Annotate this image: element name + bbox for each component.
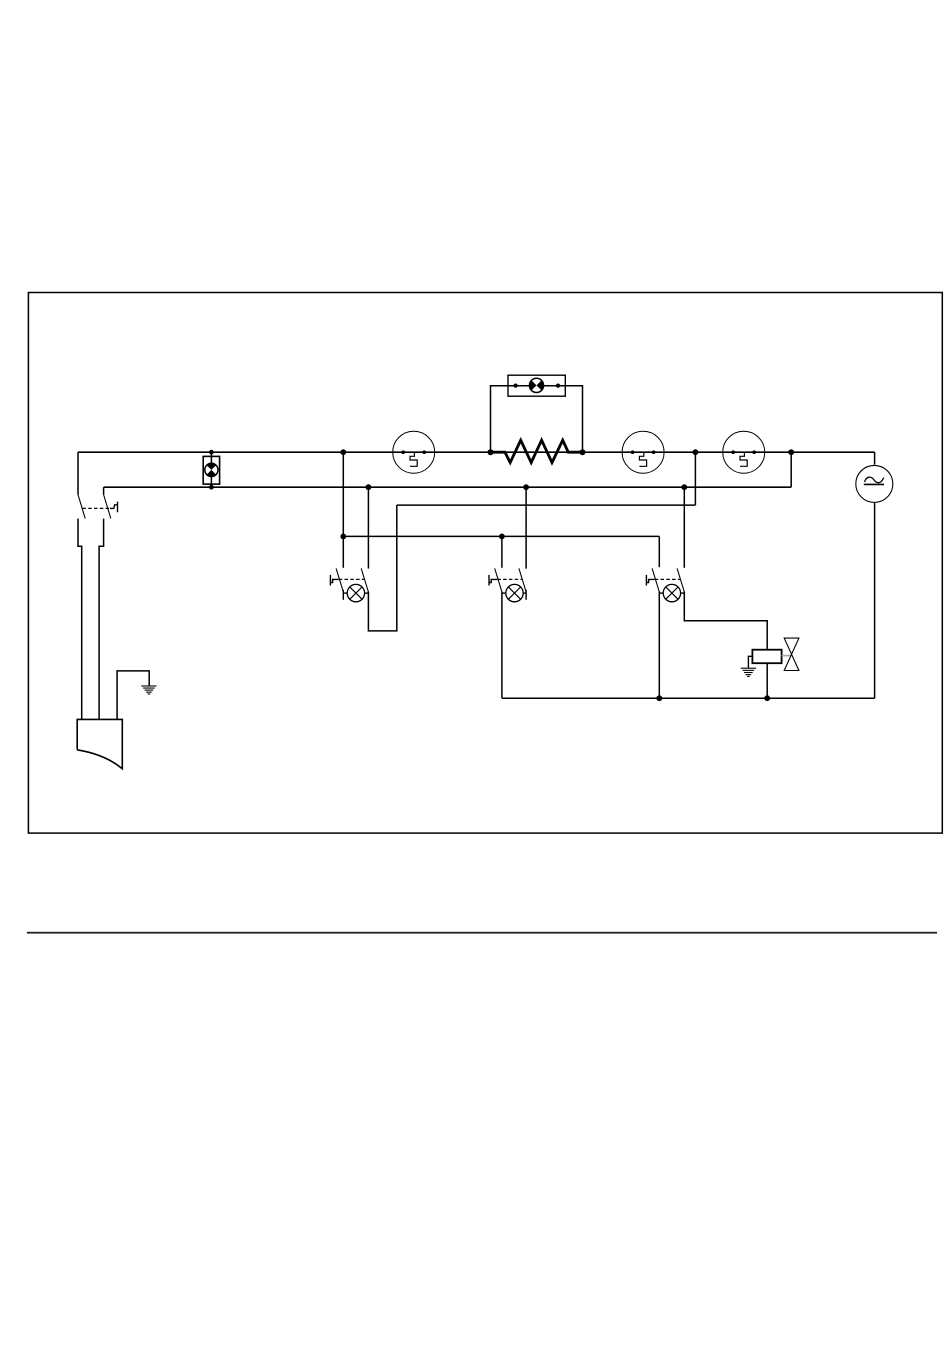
wire: lamp-return bus (third horizontal) bbox=[397, 504, 696, 506]
indicator lamp E1 bbox=[205, 463, 218, 476]
wire: drop from neutral bus to switch S2 right pole bbox=[525, 487, 527, 568]
wire: horn third terminal to earth bbox=[117, 671, 149, 720]
wire: S0 left pole to horn bbox=[78, 519, 82, 720]
junction: bottom bus / E5 left return bbox=[656, 695, 662, 701]
switch S3 left blade bbox=[652, 568, 659, 592]
door switch S0 left blade bbox=[78, 495, 85, 519]
wire: lamp E4 right lead bbox=[523, 592, 526, 594]
switch S3 right blade bbox=[677, 568, 684, 592]
wire: riser from lamp-return bus to main bus bbox=[694, 452, 696, 505]
wire: riser from neutral bus to main bus bbox=[790, 452, 792, 487]
switch S1 linkage (dashed) bbox=[339, 578, 365, 580]
valve stem link bbox=[782, 655, 792, 657]
wire: lamp E2 right branch bbox=[543, 386, 582, 453]
igniter plug P2 bbox=[622, 431, 664, 473]
wire: lamp E1 through-lead bbox=[210, 452, 212, 487]
indicator lamp E2 bbox=[529, 378, 543, 392]
wire: AC source top lead bbox=[874, 452, 876, 465]
wire: lamp E2 left branch bbox=[491, 386, 530, 453]
junction: switch-feed bus / S2 left drop bbox=[499, 534, 505, 540]
indicator lamp E1 enclosure box bbox=[203, 456, 219, 484]
igniter plug P3 bbox=[723, 431, 765, 473]
wire: neutral bus (second horizontal) bbox=[104, 486, 792, 488]
valve body Y1 bbox=[784, 638, 799, 670]
indicator lamp E2 enclosure box bbox=[508, 375, 565, 396]
junction: main bus / S1 drop bbox=[340, 449, 346, 455]
lamp E3 bbox=[347, 584, 364, 601]
switch S1 left blade bbox=[336, 568, 343, 592]
earth ground GND2 bbox=[741, 668, 756, 676]
igniter plug P1 bbox=[393, 431, 435, 473]
switch S1 actuator button bbox=[330, 575, 338, 586]
earth ground GND1 bbox=[141, 686, 156, 694]
junction: neutral bus / S2 right drop bbox=[523, 484, 529, 490]
junction: main bus / neutral riser bbox=[788, 449, 794, 455]
junction: main bus / E2-R1 right bbox=[580, 449, 586, 455]
terminal dot E2 left bbox=[514, 384, 518, 388]
junction: neutral bus / S3 right drop bbox=[681, 484, 687, 490]
wire: lamp E4 left lead bbox=[502, 592, 506, 594]
wire: bottom return bus bbox=[502, 697, 875, 699]
terminal stub E3 left bbox=[342, 590, 344, 600]
wire: drop from main bus to switch S1 left pole bbox=[342, 452, 344, 568]
AC source G1 bbox=[856, 465, 893, 502]
wire: main bus drop to door switch left pole bbox=[77, 452, 79, 495]
junction: neutral bus / S1 right drop bbox=[366, 484, 372, 490]
terminal stub E4 right bbox=[525, 590, 527, 600]
lamp E4 bbox=[506, 584, 523, 601]
junction: neutral bus / lamp E1 bbox=[209, 485, 214, 490]
wire: drop from switch-feed bus to switch S2 left pole bbox=[501, 536, 503, 567]
wire: lamp E3 right lead bbox=[365, 592, 369, 594]
lamp E5 bbox=[663, 584, 680, 601]
switch S3 linkage (dashed) bbox=[655, 578, 681, 580]
wire: solenoid valve Y1 to bottom bus bbox=[766, 663, 768, 698]
wire: coil Y1 earth lead bbox=[748, 656, 752, 668]
door switch S0 actuator bbox=[110, 502, 118, 513]
wire: drop from neutral bus to switch S3 right pole bbox=[683, 487, 685, 568]
switch S2 actuator button bbox=[489, 575, 497, 586]
junction: switch-feed bus / S1 left drop bbox=[340, 534, 346, 540]
wire: neutral bus drop to door switch right pole bbox=[103, 487, 105, 495]
wire: lamp E5 left lead bbox=[659, 592, 663, 594]
wire: main bus (top horizontal) bbox=[78, 451, 875, 453]
switch S2 left blade bbox=[495, 568, 502, 592]
horn H1 bbox=[77, 719, 122, 768]
wire: lamp E3 left lead bbox=[343, 592, 347, 594]
switch S2 right blade bbox=[519, 568, 526, 592]
wire: E5 right lead to solenoid valve Y1 bbox=[684, 592, 767, 650]
wire: E5 left return to bottom bus bbox=[658, 592, 660, 699]
wire: E3 return to lamp-return bus bbox=[368, 505, 396, 631]
wire: drop from neutral bus to switch S1 right pole bbox=[367, 487, 369, 568]
wire: lamp E5 right lead bbox=[681, 592, 685, 594]
switch S1 right blade bbox=[361, 568, 368, 592]
junction: main bus / lamp E1 bbox=[209, 450, 214, 455]
junction: main bus / E2-R1 left bbox=[488, 449, 494, 455]
terminal dot E2 right bbox=[556, 384, 560, 388]
resistor R1 bbox=[491, 440, 583, 462]
door switch S0 right blade bbox=[104, 495, 111, 519]
wire: AC source bottom lead bbox=[874, 503, 876, 698]
switch S3 actuator button bbox=[646, 575, 654, 586]
wire: switch-feed bus (fourth horizontal) bbox=[343, 535, 659, 537]
wire: E4 return to bottom bus bbox=[501, 592, 503, 699]
solenoid coil Y1 bbox=[752, 650, 781, 664]
junction: bottom bus / valve Y1 bbox=[764, 695, 770, 701]
junction: main bus / lamp-return riser bbox=[693, 449, 699, 455]
wire: S0 right pole to horn bbox=[99, 519, 104, 720]
wire: drop from switch-feed bus to switch S3 left pole bbox=[658, 536, 660, 567]
switch S2 linkage (dashed) bbox=[497, 578, 522, 580]
door switch S0 linkage (dashed) bbox=[82, 507, 110, 509]
